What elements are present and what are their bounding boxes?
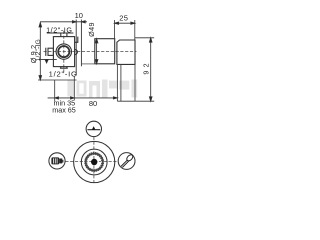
svg-text:Ø49: Ø49 [87,22,96,37]
svg-text:25: 25 [119,13,128,22]
svg-text:80: 80 [89,99,97,108]
svg-text:10: 10 [75,11,83,20]
svg-text:1/2"-IG: 1/2"-IG [46,25,72,34]
svg-text:1/2"-IG: 1/2"-IG [35,39,42,61]
svg-text:92: 92 [142,60,151,74]
svg-text:max 65: max 65 [52,106,76,115]
svg-text:1/2"-IG: 1/2"-IG [49,70,78,79]
